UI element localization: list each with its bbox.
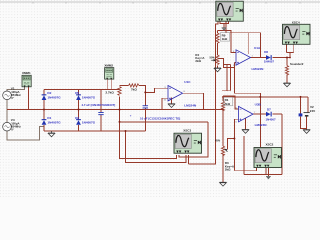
wire R9 to pot R4 <box>217 43 219 55</box>
wire pot R4 wiper loop to plus input <box>219 59 236 68</box>
wire R9 top stub <box>217 31 219 34</box>
wire D1 column <box>43 110 45 132</box>
wire R1 to U3B plus <box>223 96 239 109</box>
wire op1 gnd stem <box>171 97 173 103</box>
wire R9 top to minus input <box>218 31 237 53</box>
wire C1 0.7uF column <box>100 89 102 131</box>
svg-text:2kΩ: 2kΩ <box>225 168 231 172</box>
wire XSC2 B <box>244 136 282 176</box>
svg-text:D5: D5 <box>75 91 79 95</box>
svg-text:XMM1: XMM1 <box>22 71 31 75</box>
wire sounder column <box>286 58 288 84</box>
svg-text:45%: 45% <box>215 139 221 143</box>
ground V2 <box>303 130 310 134</box>
wire 7k left stub <box>120 84 129 86</box>
wire V4 bottom loop to bridge <box>7 127 44 141</box>
svg-text:LM324N: LM324N <box>255 123 268 127</box>
junction at U3B minus branch <box>233 138 235 140</box>
svg-text:U1A: U1A <box>254 46 261 50</box>
bottom rail <box>44 130 145 132</box>
svg-text:2kΩ: 2kΩ <box>195 59 201 63</box>
oscilloscope XSC2 <box>254 143 282 168</box>
wire D5 column <box>78 89 80 109</box>
wire lower rail to XSC3 B <box>126 131 187 162</box>
opamp U3B <box>236 102 268 126</box>
svg-text:XMM2: XMM2 <box>104 64 113 68</box>
svg-text:D3: D3 <box>75 116 79 120</box>
wire op1 output feedback <box>183 93 204 109</box>
junction at 10uF column <box>144 91 146 93</box>
svg-text:24V: 24V <box>310 109 315 113</box>
wire XSC2 A <box>234 168 256 171</box>
junction at mid rail/R1 column <box>222 109 224 111</box>
ground arrow XSC2 <box>266 176 271 179</box>
svg-text:0°: 0° <box>11 96 14 100</box>
oscilloscope XSC1 <box>216 1 244 21</box>
junction at D5/D3 mid node <box>78 109 80 111</box>
svg-text:1N4007G: 1N4007G <box>47 121 61 125</box>
wire 2.7k bottom long to XSC3 A <box>120 96 177 158</box>
source V4 <box>3 118 22 132</box>
wire XSC3 pin2 right riser <box>179 122 208 157</box>
diode D3 <box>75 116 96 125</box>
oscilloscope XSC4 <box>283 20 311 44</box>
svg-text:Sounder2: Sounder2 <box>290 62 304 66</box>
ground U3B <box>242 130 249 134</box>
svg-text:1kΩ: 1kΩ <box>222 37 228 41</box>
wire D3 column <box>78 110 80 132</box>
svg-text:1N4007G: 1N4007G <box>82 96 96 100</box>
wire U3B minus column <box>228 119 239 171</box>
svg-text:XSC2: XSC2 <box>266 143 274 147</box>
ground op1 <box>168 104 175 108</box>
wire V1 top to XMM1 <box>7 87 25 92</box>
wire mid rail right rail y=121.9 <box>120 121 208 123</box>
resistor sounder2 <box>285 62 303 75</box>
diode D6 <box>264 50 275 63</box>
top rail <box>44 88 120 90</box>
svg-text:D6: D6 <box>264 50 268 54</box>
svg-text:7kΩ: 7kΩ <box>224 102 230 106</box>
wire knot lattice <box>222 64 231 90</box>
resistor 2.7k vertical <box>106 87 122 96</box>
potentiometer R3 <box>215 139 235 172</box>
junction at D2/D1 mid node <box>43 109 45 111</box>
svg-text:XSC3: XSC3 <box>183 128 191 132</box>
svg-text:D2: D2 <box>47 91 51 95</box>
wire XMM1 right pin down to mid rail <box>28 87 30 110</box>
svg-text:1N4007: 1N4007 <box>266 117 277 121</box>
source V1 <box>3 87 22 101</box>
svg-text:U3B: U3B <box>255 102 262 106</box>
ground sounder <box>284 83 291 87</box>
ground bridge <box>48 131 55 137</box>
opamp U1C <box>164 80 197 107</box>
wire XSC4 probes <box>287 45 294 58</box>
svg-text:1N4007G: 1N4007G <box>82 121 96 125</box>
wire D2 column <box>43 89 45 109</box>
wire pot R3 column <box>222 110 224 183</box>
wire XSC3 pin4 riser / XSC1 probe A long drop <box>189 21 218 164</box>
capacitor C1 0.7uF <box>82 103 116 115</box>
wire U3B output <box>253 113 282 115</box>
junction at V2 branch <box>300 96 302 98</box>
potentiometer R4 <box>195 53 219 65</box>
wire C2 10uF column <box>144 92 146 131</box>
svg-text:D7: D7 <box>267 107 271 111</box>
svg-text:XSC4: XSC4 <box>292 20 300 24</box>
ground pot R3 <box>220 182 227 186</box>
diode D1 <box>42 116 62 125</box>
wire U3B gnd stem <box>245 118 247 130</box>
wire V1 bottom to V4 top <box>6 100 8 123</box>
wire 7k right staircase to op1 minus <box>139 85 168 92</box>
diode D2 <box>42 91 62 100</box>
svg-text:0°: 0° <box>11 128 14 132</box>
ground arrow XSC1 <box>222 28 227 31</box>
svg-text:LM324N: LM324N <box>252 67 265 71</box>
svg-text:LM324N: LM324N <box>184 103 197 107</box>
wire XSC1 B to U1A output <box>226 21 260 58</box>
wire op1 plus input <box>162 98 168 109</box>
wire U1A output <box>251 57 291 59</box>
svg-text:U1C: U1C <box>184 80 191 84</box>
wire pot R4 bottom to ground <box>217 66 219 69</box>
resistor R9 <box>216 33 230 44</box>
ground pot R4 <box>214 68 221 72</box>
battery V2 <box>304 105 316 116</box>
multimeter XMM1 <box>22 71 31 87</box>
svg-text:+: + <box>130 113 132 117</box>
multimeter XMM2 <box>104 64 113 80</box>
junction at rail/2.7k column <box>119 121 121 123</box>
wire XMM2 pins down to top rail <box>107 80 111 90</box>
junction at mid rail/2.7k column <box>119 109 121 111</box>
mid rail <box>7 109 223 111</box>
supply rail y=96.9 <box>222 96 308 98</box>
junction at XSC4 tap <box>289 57 291 59</box>
resistor 7k horizontal <box>129 84 139 92</box>
junction at sounder node <box>286 57 288 59</box>
junction at bottom rail/scope tap <box>125 130 127 132</box>
resistor R1 <box>221 97 232 111</box>
wire D7 out down <box>281 114 283 174</box>
opamp U1A <box>233 46 264 71</box>
diode D5 <box>75 91 96 100</box>
svg-text:10 uF [C1312C106K2REC TO]: 10 uF [C1312C106K2REC TO] <box>140 117 180 121</box>
wire XSC1 gnd loop <box>220 21 229 28</box>
diode D7 <box>266 107 277 121</box>
junction at supply rail/U1A column <box>259 96 261 98</box>
wire V2 battery loop <box>301 97 309 130</box>
fuse/blue element on V2 branch <box>299 113 303 116</box>
sheet top border <box>0 2 320 4</box>
wire U1A plus column down <box>234 63 260 147</box>
svg-text:2.7kΩ: 2.7kΩ <box>106 90 115 94</box>
svg-text:1N4007: 1N4007 <box>264 60 275 64</box>
svg-text:1N4007G: 1N4007G <box>47 96 61 100</box>
capacitor C2 10uF <box>130 105 181 120</box>
svg-text:50%: 50% <box>210 55 216 59</box>
svg-text:4.7 uF [I1N4D47GM234T]: 4.7 uF [I1N4D47GM234T] <box>82 103 116 107</box>
svg-text:7kΩ: 7kΩ <box>131 87 137 91</box>
oscilloscope XSC3 <box>174 128 202 153</box>
